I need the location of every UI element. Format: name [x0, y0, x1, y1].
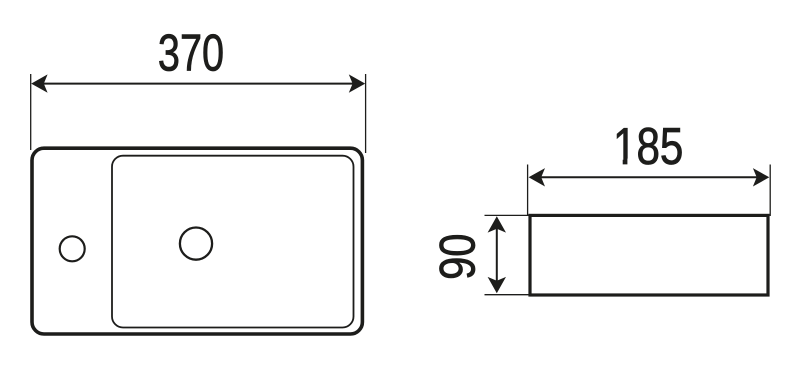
extension line bottom (90) — [485, 294, 530, 296]
arrowhead 90 top — [488, 216, 506, 232]
extension line left (370) — [30, 74, 32, 150]
arrowhead 370 right — [349, 74, 365, 92]
faucet hole — [60, 236, 85, 261]
svg-text:185: 185 — [613, 117, 683, 175]
arrowhead 90 bottom — [488, 277, 506, 293]
dimension line 185 — [531, 176, 767, 178]
dimension line 370 — [34, 83, 363, 85]
dimension line 90 — [496, 219, 498, 291]
extension line left (185) — [527, 165, 529, 217]
basin inner bowl outline (top view) — [112, 156, 354, 328]
arrowhead 370 left — [31, 74, 47, 92]
extension line right (185) — [769, 165, 771, 217]
extension line top (90) — [485, 214, 530, 216]
extension line right (370) — [365, 74, 367, 153]
drain hole — [180, 228, 212, 260]
arrowhead 185 right — [753, 168, 769, 186]
svg-text:90: 90 — [429, 233, 485, 279]
svg-text:370: 370 — [158, 23, 224, 81]
basin outer outline (top view) — [32, 148, 362, 334]
side view body rectangle — [530, 215, 768, 295]
arrowhead 185 left — [529, 168, 545, 186]
